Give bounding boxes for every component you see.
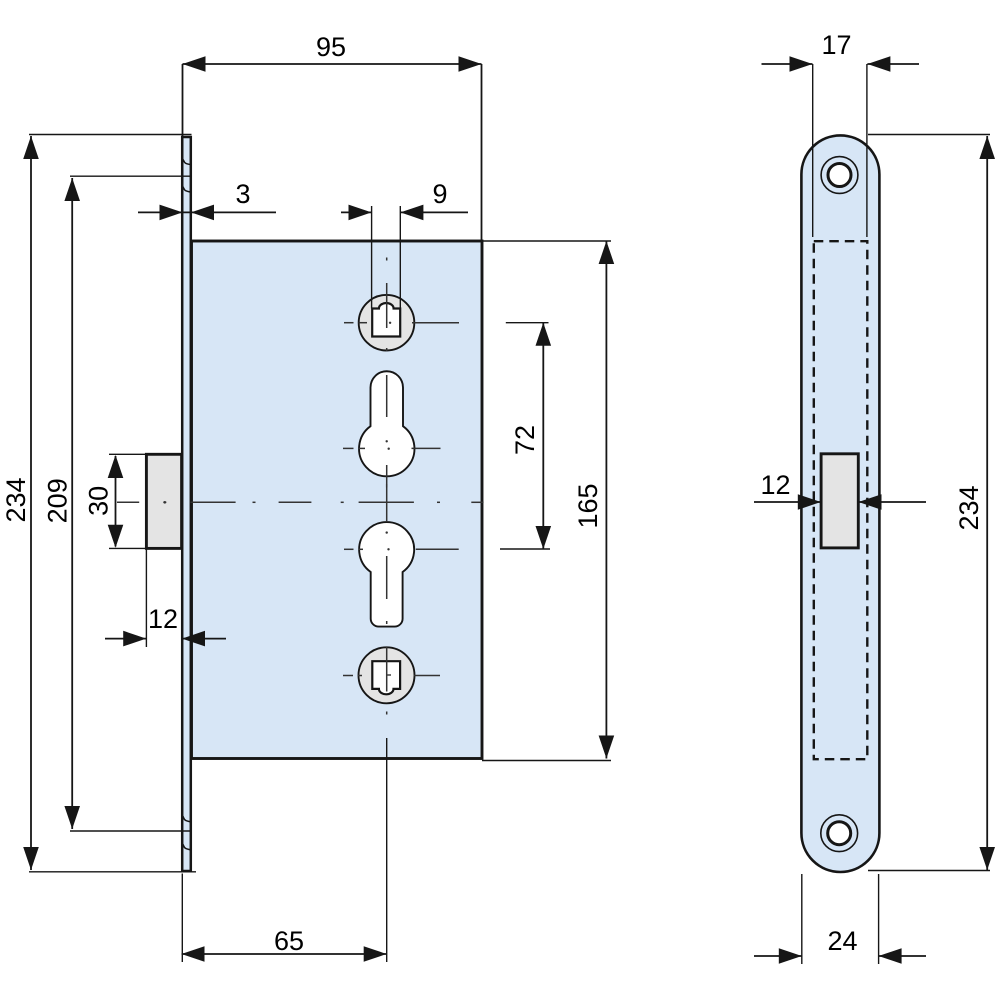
svg-text:65: 65 bbox=[274, 926, 304, 956]
dimension 3 bbox=[138, 211, 276, 213]
faceplate break arc bottom 1 bbox=[182, 815, 191, 822]
dimension 30 bbox=[109, 454, 146, 548]
latch bolt (front view) bbox=[146, 454, 181, 548]
follower hole top crosshair bbox=[344, 322, 459, 324]
latch bolt (right view) bbox=[821, 454, 858, 548]
svg-text:95: 95 bbox=[316, 32, 346, 62]
follower hole bottom square with arch bbox=[372, 661, 400, 694]
dimension 234 left bbox=[29, 135, 196, 872]
screw hole bottom bbox=[821, 815, 858, 852]
follower hole bottom (grey circle) bbox=[359, 647, 415, 703]
hidden lock case dashed rect bbox=[814, 241, 868, 759]
euro upper crosshair bbox=[343, 447, 441, 449]
euro profile hole upper (keyway up) bbox=[359, 371, 414, 476]
dimension 95 bbox=[183, 64, 482, 241]
svg-text:12: 12 bbox=[760, 470, 790, 500]
dimension 72 bbox=[500, 323, 550, 549]
screw hole top bbox=[821, 157, 858, 194]
faceplate front view (stadium) bbox=[801, 135, 879, 872]
svg-text:209: 209 bbox=[43, 478, 73, 523]
dimension 234 right bbox=[868, 135, 990, 871]
vertical axis centerline segments and dots bbox=[386, 258, 388, 715]
svg-text:234: 234 bbox=[954, 485, 984, 530]
follower hole top (grey circle) bbox=[359, 295, 415, 351]
faceplate break arc top 2 bbox=[182, 186, 191, 193]
svg-text:72: 72 bbox=[510, 425, 540, 455]
svg-text:234: 234 bbox=[1, 477, 31, 522]
dimension 24 bbox=[754, 874, 926, 964]
dimension 9 bbox=[341, 206, 468, 309]
dimension 65 bbox=[182, 738, 387, 962]
euro lower crosshair bbox=[344, 548, 459, 550]
dimension 17 bbox=[762, 64, 920, 237]
faceplate edge strip (front view) bbox=[182, 137, 191, 871]
follower bottom center tick bbox=[387, 674, 391, 676]
svg-text:3: 3 bbox=[235, 179, 250, 209]
lock body (front view case) bbox=[192, 241, 483, 759]
dimension 12 left view bbox=[105, 548, 226, 647]
svg-text:9: 9 bbox=[432, 179, 447, 209]
dimension 209 bbox=[70, 176, 191, 831]
follower hole bottom crosshair bbox=[343, 675, 440, 677]
follower hole top square with arch bbox=[372, 303, 400, 337]
faceplate break arc bottom 2 bbox=[182, 843, 191, 850]
svg-text:30: 30 bbox=[84, 486, 114, 516]
svg-text:24: 24 bbox=[827, 926, 857, 956]
dimension 165 bbox=[482, 241, 611, 761]
svg-text:12: 12 bbox=[148, 604, 178, 634]
svg-text:165: 165 bbox=[573, 483, 603, 528]
faceplate break arc top 1 bbox=[182, 158, 191, 165]
horizontal centerline (dash-dot) bbox=[117, 484, 484, 521]
svg-text:17: 17 bbox=[821, 30, 851, 60]
euro profile hole lower (keyway down) bbox=[359, 522, 414, 627]
dimension 12 right view bbox=[754, 501, 926, 503]
center dots bbox=[164, 322, 392, 551]
